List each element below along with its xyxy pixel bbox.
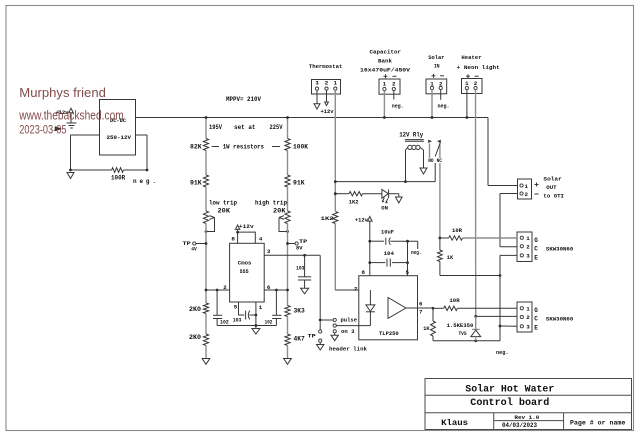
svg-text:Control board: Control board <box>470 397 549 409</box>
svg-text:6: 6 <box>419 300 423 307</box>
svg-text:1: 1 <box>465 80 469 87</box>
svg-text:1: 1 <box>526 235 530 242</box>
svg-text:on 3: on 3 <box>341 328 355 335</box>
svg-text:91K: 91K <box>293 180 305 187</box>
svg-text:1: 1 <box>334 80 338 87</box>
svg-text:1: 1 <box>259 304 263 311</box>
svg-text:+12v: +12v <box>239 223 255 230</box>
svg-text:SKW30N60: SKW30N60 <box>546 316 574 323</box>
svg-text:1.5KE350: 1.5KE350 <box>447 322 474 329</box>
svg-text:2: 2 <box>525 191 529 198</box>
svg-text:2: 2 <box>392 81 396 88</box>
svg-text:195V: 195V <box>209 124 222 131</box>
svg-text:OUT: OUT <box>546 184 557 191</box>
svg-text:neg.: neg. <box>411 249 422 256</box>
svg-text:C: C <box>534 246 538 253</box>
svg-text:1: 1 <box>526 306 530 313</box>
svg-text:set at: set at <box>234 124 256 131</box>
svg-text:Capacitor: Capacitor <box>370 49 402 56</box>
svg-text:8: 8 <box>231 236 235 243</box>
svg-text:2: 2 <box>526 244 530 251</box>
svg-text:Thermostat: Thermostat <box>309 63 342 70</box>
svg-text:1K: 1K <box>447 254 454 261</box>
svg-text:4: 4 <box>259 236 263 243</box>
svg-text:www.thebackshed.com: www.thebackshed.com <box>18 109 123 123</box>
svg-text:1: 1 <box>383 81 387 88</box>
svg-text:Solar: Solar <box>428 54 445 61</box>
svg-text:2: 2 <box>325 80 329 87</box>
svg-text:5: 5 <box>234 304 238 311</box>
svg-text:1: 1 <box>525 183 529 190</box>
svg-text:neg.: neg. <box>496 349 509 356</box>
svg-text:neg.: neg. <box>438 103 450 110</box>
svg-text:G: G <box>534 307 538 314</box>
svg-text:7: 7 <box>419 308 423 315</box>
svg-text:Klaus: Klaus <box>441 419 468 428</box>
svg-text:Page # or name: Page # or name <box>570 420 625 428</box>
svg-text:104: 104 <box>384 250 395 257</box>
svg-text:+ Neon light: + Neon light <box>457 64 500 71</box>
svg-text:G: G <box>534 237 538 244</box>
svg-text:to GTI: to GTI <box>543 193 564 200</box>
svg-text:3K3: 3K3 <box>294 308 305 315</box>
svg-text:E: E <box>534 255 538 262</box>
svg-text:103: 103 <box>296 266 305 272</box>
svg-text:250-12V: 250-12V <box>107 134 132 141</box>
svg-text:225V: 225V <box>270 124 283 131</box>
svg-text:100R: 100R <box>111 175 125 182</box>
svg-text:100K: 100K <box>293 144 308 151</box>
svg-text:82K: 82K <box>190 144 202 151</box>
svg-text:2023-03-05: 2023-03-05 <box>19 123 66 137</box>
svg-text:TP: TP <box>183 240 192 247</box>
svg-text:Bank: Bank <box>378 58 393 65</box>
svg-text:2: 2 <box>474 80 478 87</box>
svg-text:4V: 4V <box>191 246 197 253</box>
svg-text:102: 102 <box>265 319 273 325</box>
svg-text:103: 103 <box>233 318 242 324</box>
svg-text:2: 2 <box>354 285 358 292</box>
svg-text:TVS: TVS <box>459 330 467 337</box>
svg-text:TP: TP <box>308 333 317 340</box>
svg-text:2: 2 <box>223 284 227 291</box>
svg-text:1K2: 1K2 <box>321 215 334 222</box>
svg-text:16x470uF/450V: 16x470uF/450V <box>360 67 411 74</box>
svg-text:neg.: neg. <box>392 103 404 110</box>
svg-text:1W resistors: 1W resistors <box>223 144 264 151</box>
svg-text:3: 3 <box>267 248 271 255</box>
svg-text:20K: 20K <box>218 208 231 215</box>
svg-text:3: 3 <box>526 253 530 260</box>
svg-text:04/03/2023: 04/03/2023 <box>502 422 537 429</box>
svg-text:10R: 10R <box>452 227 462 234</box>
svg-text:3: 3 <box>315 80 319 87</box>
svg-text:2: 2 <box>526 314 530 321</box>
svg-text:pulse: pulse <box>341 317 358 324</box>
svg-text:10R: 10R <box>449 297 460 304</box>
svg-text:C: C <box>534 316 538 323</box>
svg-text:1K2: 1K2 <box>349 198 359 205</box>
svg-text:102: 102 <box>220 319 229 325</box>
svg-text:2K0: 2K0 <box>189 306 201 313</box>
svg-text:Heater: Heater <box>461 54 482 61</box>
svg-text:E: E <box>534 325 538 332</box>
svg-text:555: 555 <box>240 268 250 275</box>
svg-text:NO: NO <box>428 158 434 164</box>
svg-text:3: 3 <box>526 324 530 331</box>
svg-text:high trip: high trip <box>255 200 287 207</box>
svg-text:MPPV= 210V: MPPV= 210V <box>226 96 261 103</box>
svg-text:Solar: Solar <box>543 175 562 182</box>
svg-text:20K: 20K <box>273 208 286 215</box>
svg-text:Murphys friend: Murphys friend <box>19 85 106 100</box>
svg-text:12V Rly: 12V Rly <box>399 132 423 139</box>
svg-text:+12v: +12v <box>355 217 369 224</box>
svg-text:SKW30N60: SKW30N60 <box>546 246 574 253</box>
svg-text:2K0: 2K0 <box>189 334 201 341</box>
svg-text:Rev 1.0: Rev 1.0 <box>514 415 539 421</box>
svg-text:1K: 1K <box>423 325 430 332</box>
svg-text:ON: ON <box>381 204 388 211</box>
svg-text:91K: 91K <box>190 180 202 187</box>
svg-text:header link: header link <box>329 346 368 353</box>
svg-text:8V: 8V <box>296 245 303 252</box>
svg-text:Solar Hot Water: Solar Hot Water <box>465 383 554 395</box>
svg-text:8: 8 <box>362 269 366 276</box>
svg-text:6: 6 <box>267 284 271 291</box>
svg-text:neg.: neg. <box>133 178 156 185</box>
svg-text:Cmos: Cmos <box>238 260 252 267</box>
svg-text:IN: IN <box>434 63 440 70</box>
svg-text:4K7: 4K7 <box>294 336 305 343</box>
svg-text:+12v: +12v <box>321 108 335 115</box>
svg-text:10uF: 10uF <box>381 228 394 235</box>
svg-text:low trip: low trip <box>209 200 237 207</box>
svg-text:TLP250: TLP250 <box>379 330 399 337</box>
